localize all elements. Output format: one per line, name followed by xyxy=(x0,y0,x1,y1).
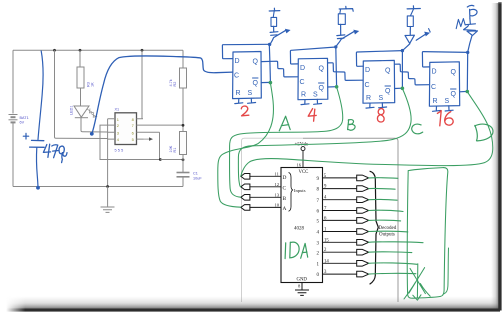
output terminal Q2 xyxy=(357,249,369,255)
wire pin2 loop xyxy=(100,125,160,159)
output terminal Q6 xyxy=(357,208,369,214)
label IDA xyxy=(285,242,308,258)
node FF1 Qbar green xyxy=(269,81,273,85)
FF2 Qbar riser wire xyxy=(335,47,338,87)
display scribble xyxy=(404,264,430,300)
FF2 Qbar output wire xyxy=(328,86,337,88)
node FF4 Qbar green xyxy=(466,90,470,94)
svg-text:Decoded: Decoded xyxy=(379,226,397,231)
label A xyxy=(279,116,290,131)
FF1 resistor xyxy=(273,11,274,17)
output wire Q7 xyxy=(323,199,358,201)
wire pin6 drop xyxy=(159,132,161,159)
svg-text:LED1: LED1 xyxy=(70,106,74,116)
input letters D C B A xyxy=(283,175,287,212)
FF2 R S stubs xyxy=(301,99,322,104)
FF4 pullup flag xyxy=(467,5,477,18)
FF3 Qbar overbar xyxy=(385,85,391,87)
LEFT 555 CIRCUIT xyxy=(9,49,233,213)
wire B xyxy=(230,87,343,197)
input wire C xyxy=(249,186,281,188)
FF4 pin letters xyxy=(431,69,457,106)
svg-text:Q: Q xyxy=(319,66,325,73)
svg-text:14: 14 xyxy=(324,259,329,264)
ground xyxy=(101,187,115,213)
output wire Q3 xyxy=(323,241,358,243)
svg-text:2: 2 xyxy=(117,123,119,128)
FF2 pin letters xyxy=(300,65,325,99)
label 2 xyxy=(241,106,249,116)
svg-text:VCC: VCC xyxy=(299,170,309,175)
output terminal Q0 xyxy=(357,271,369,277)
svg-text:15: 15 xyxy=(324,238,329,243)
wire LED-pin3 xyxy=(81,118,108,133)
input terminal B xyxy=(241,195,250,201)
RED INK xyxy=(241,106,453,126)
FF3 R S stubs xyxy=(366,103,387,108)
label C xyxy=(412,124,423,134)
FF1 R S stubs xyxy=(235,98,256,103)
input terminal A xyxy=(241,205,250,211)
FF4 Qbar riser wire xyxy=(466,52,468,91)
output scribble Q4 xyxy=(369,230,408,233)
label 470u xyxy=(43,144,67,162)
svg-text:A: A xyxy=(283,206,287,212)
svg-text:7: 7 xyxy=(132,123,134,128)
output terminal Q9 xyxy=(357,175,369,181)
FF4 Qbar overbar xyxy=(451,88,457,90)
node top-rail A xyxy=(53,49,56,52)
svg-text:C: C xyxy=(283,186,287,192)
wire vcc xyxy=(302,151,304,168)
svg-text:D: D xyxy=(283,175,287,181)
output scribble Q1 xyxy=(369,263,417,264)
svg-text:12: 12 xyxy=(275,182,280,187)
FF4 switch arrows xyxy=(456,19,465,29)
svg-text:6: 6 xyxy=(132,130,134,135)
svg-text:C: C xyxy=(300,79,305,86)
FF4 resistor bar xyxy=(466,18,476,24)
svg-text:S: S xyxy=(379,95,384,102)
wire C xyxy=(238,89,411,187)
node pin7-junction xyxy=(182,124,185,127)
FF3 pin letters xyxy=(365,67,392,102)
label D xyxy=(475,124,493,141)
FF3 pullup tick xyxy=(407,6,420,9)
output wire Q2 xyxy=(323,251,358,253)
output scribble Q0 xyxy=(369,272,416,275)
battery BAT1 xyxy=(9,115,18,123)
op-amp X1 555 body xyxy=(115,113,137,145)
wire left rail xyxy=(12,50,14,186)
FF2 Qbar overbar xyxy=(319,82,325,84)
FF1 Qbar overbar xyxy=(253,77,259,79)
node bottom-gnd xyxy=(106,185,109,188)
flip-flop FF2 box xyxy=(298,58,328,99)
output pin numbers xyxy=(324,174,330,275)
resistor R1 xyxy=(180,132,187,155)
svg-text:Q: Q xyxy=(451,91,457,98)
output scribble Q5 xyxy=(369,219,401,222)
output wire Q4 xyxy=(323,231,358,233)
wire R3-LED xyxy=(80,88,82,106)
label 8 xyxy=(377,108,384,122)
output terminal Q3 xyxy=(357,240,369,246)
input wire A xyxy=(249,206,281,208)
svg-text:1K: 1K xyxy=(91,82,95,87)
capacitor 470u hand-drawn xyxy=(23,51,44,188)
flip-flop FF1 box xyxy=(233,52,262,99)
output wire Q9 xyxy=(323,177,358,179)
svg-text:R: R xyxy=(236,90,241,97)
wire C1-bottom xyxy=(182,178,184,187)
pin5 arrow xyxy=(144,138,150,140)
FF3 Qbar riser wire xyxy=(401,51,403,89)
wire pin8 vcc xyxy=(141,50,143,119)
pin stubs right xyxy=(137,119,184,139)
svg-text:R2: R2 xyxy=(173,82,177,87)
FF2 resistor xyxy=(339,9,342,13)
outputs brace xyxy=(370,171,379,284)
FF2 pullup tick xyxy=(339,6,353,11)
svg-text:Q: Q xyxy=(451,69,457,76)
FF2 switch xyxy=(337,24,355,39)
svg-text:GND: GND xyxy=(297,278,308,283)
output wire Q6 xyxy=(323,210,358,212)
label 16 xyxy=(437,111,453,126)
node FF2 junction xyxy=(334,45,337,48)
FF4 D feedback wire xyxy=(422,52,467,67)
node R1-bottom xyxy=(182,158,185,161)
FF1 switch xyxy=(270,26,286,37)
input wire D xyxy=(249,175,281,177)
node FF3 Qbar green xyxy=(401,87,405,91)
resistor R3 xyxy=(79,50,81,67)
FLIPFLOPS xyxy=(222,5,477,111)
wire reset pin4 xyxy=(55,50,108,138)
svg-text:8: 8 xyxy=(132,117,134,122)
svg-text:C: C xyxy=(365,82,370,89)
svg-text:R: R xyxy=(366,95,371,102)
svg-text:16: 16 xyxy=(297,163,302,168)
power terminal xyxy=(301,147,305,151)
node 470u-bottom xyxy=(36,186,40,190)
capacitor C1 xyxy=(177,173,190,177)
FF2 D feedback wire xyxy=(290,47,335,64)
wire pin1 gnd xyxy=(107,119,109,187)
svg-text:R: R xyxy=(433,98,438,105)
output scribble Q9 xyxy=(369,177,398,180)
label B xyxy=(348,120,356,131)
FF1 Q to FF2 C wire xyxy=(261,61,298,77)
node FF3 junction xyxy=(401,49,404,52)
GREEN INK xyxy=(218,81,493,300)
svg-text:4028: 4028 xyxy=(294,227,305,232)
svg-text:Q: Q xyxy=(319,85,325,92)
wire D xyxy=(241,92,493,177)
svg-text:3: 3 xyxy=(117,130,119,135)
output wire Q5 xyxy=(323,219,358,221)
FF3 D feedback wire xyxy=(356,51,402,67)
svg-text:D: D xyxy=(432,69,437,76)
wire clock blue xyxy=(92,56,233,134)
wire bottom rail xyxy=(13,186,183,188)
svg-text:Inputs: Inputs xyxy=(294,188,306,193)
output terminal Q8 xyxy=(357,186,369,192)
FF3 switch LED xyxy=(405,27,426,44)
svg-text:C: C xyxy=(234,73,239,80)
svg-text:C1: C1 xyxy=(193,172,198,176)
svg-text:11: 11 xyxy=(275,171,280,176)
svg-text:D: D xyxy=(300,65,305,72)
input terminal C xyxy=(241,184,250,190)
node top-rail B xyxy=(79,49,82,52)
svg-text:13: 13 xyxy=(275,192,280,197)
pin stubs left xyxy=(108,119,115,139)
FF4 Qbar output wire xyxy=(460,90,468,92)
node FF4 junction xyxy=(466,51,469,54)
FF2 Q to FF3 C wire xyxy=(328,63,363,81)
FF1 switch-bottom wire xyxy=(270,38,273,44)
output scribble Q8 xyxy=(369,187,395,190)
output names 9-0 xyxy=(317,177,320,278)
output terminal Q1 xyxy=(357,261,369,267)
wire top rail xyxy=(13,49,183,51)
inputs brace xyxy=(289,173,294,212)
node FF2 Qbar green xyxy=(335,85,339,89)
FF1 D feedback wire xyxy=(222,44,269,58)
svg-text:555: 555 xyxy=(115,149,125,153)
ground decoder xyxy=(295,283,309,296)
input wire B xyxy=(249,196,281,198)
node top-rail C xyxy=(141,49,144,52)
svg-text:Q: Q xyxy=(253,59,259,66)
flip-flop FF3 box xyxy=(363,60,395,103)
svg-text:B: B xyxy=(283,196,287,202)
flip-flop FF4 box xyxy=(429,62,459,106)
svg-text:1: 1 xyxy=(117,117,119,122)
FF1 pin letters xyxy=(234,58,259,97)
display outline xyxy=(407,168,448,299)
output terminal Q4 xyxy=(357,229,369,235)
output rows xyxy=(323,178,358,274)
FF3 Q to FF4 C wire xyxy=(395,64,430,85)
FF1 Qbar output wire xyxy=(261,81,270,83)
output wire Q1 xyxy=(323,262,358,264)
svg-text:BAT1: BAT1 xyxy=(20,116,29,120)
svg-text:5: 5 xyxy=(132,137,134,142)
FF3 switch-bottom wire xyxy=(403,44,410,51)
svg-text:Q: Q xyxy=(253,80,259,87)
resistor R2 xyxy=(182,50,184,68)
svg-text:X1: X1 xyxy=(115,108,120,112)
FF4 R S stubs xyxy=(433,106,454,111)
IC U1 4028 body xyxy=(281,168,323,283)
output wire Q8 xyxy=(323,188,358,190)
output scribble Q3 xyxy=(369,241,423,244)
FF3 Qbar output wire xyxy=(395,87,403,89)
svg-text:R: R xyxy=(301,92,306,99)
output scribble Q7 xyxy=(369,198,397,201)
wire A xyxy=(218,83,274,207)
svg-text:Q: Q xyxy=(385,68,391,75)
node pin6-junction xyxy=(159,158,162,161)
FF1 Qbar riser wire xyxy=(269,44,270,82)
svg-text:S: S xyxy=(445,98,450,105)
page box xyxy=(303,138,398,302)
FF2 switch-bottom wire xyxy=(336,40,341,47)
svg-text:C: C xyxy=(431,84,436,91)
wire R2-R1 xyxy=(182,88,184,132)
input terminal D xyxy=(241,174,250,180)
wire threshold-R1 xyxy=(160,159,183,161)
svg-text:R1: R1 xyxy=(173,148,177,153)
DECODER 4028 xyxy=(241,138,398,302)
output terminal Q5 xyxy=(357,218,369,224)
svg-text:Q: Q xyxy=(385,88,391,95)
svg-text:10: 10 xyxy=(275,202,280,207)
svg-text:S: S xyxy=(248,90,253,97)
svg-text:S: S xyxy=(313,92,318,99)
FF4 switch LED xyxy=(464,26,478,52)
node FF1 junction xyxy=(268,43,271,46)
label 4 xyxy=(308,109,316,122)
wire R1-C1 xyxy=(182,155,184,173)
output scribble Q2 xyxy=(369,251,412,254)
node clock-tap xyxy=(90,132,94,136)
output scribble Q6 xyxy=(369,210,403,211)
svg-text:6V: 6V xyxy=(20,121,25,125)
svg-text:Outputs: Outputs xyxy=(379,233,395,238)
svg-text:10uF: 10uF xyxy=(193,177,202,181)
svg-text:D: D xyxy=(235,58,240,65)
FF3 resistor xyxy=(410,9,413,16)
LED LED1 xyxy=(74,106,97,118)
svg-text:D: D xyxy=(365,67,370,74)
FF1 pullup tick xyxy=(269,8,280,11)
output wire Q0 xyxy=(323,273,358,275)
output terminal Q7 xyxy=(357,197,369,203)
